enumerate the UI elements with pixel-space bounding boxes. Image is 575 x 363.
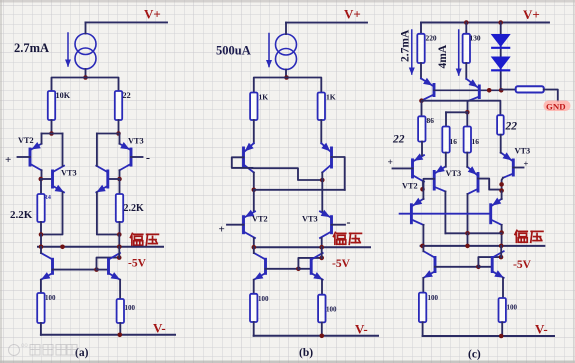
- node VT2-VT3 (a): [39, 177, 44, 182]
- resistor R4 2.2K left: [37, 179, 44, 235]
- svg-text:VT2: VT2: [402, 182, 418, 191]
- wire Q19 diode connection: [478, 257, 501, 267]
- wire VT3 collector to rail (b): [321, 238, 323, 247]
- wire Q7 collector to rail: [40, 247, 42, 253]
- wire to GND (c): [544, 90, 558, 102]
- svg-text:10K: 10K: [56, 91, 71, 100]
- wire node A horizontal: [42, 133, 63, 135]
- node VT2 collector (c): [420, 187, 425, 192]
- svg-text:(c): (c): [468, 349, 481, 361]
- svg-text:V-: V-: [355, 322, 368, 337]
- wire R10 to V- rail: [253, 322, 255, 336]
- wire Q7 base: [53, 269, 97, 271]
- resistor R15 16 first: [442, 127, 449, 153]
- node mirror bases (a): [94, 267, 99, 272]
- svg-text:VT2: VT2: [18, 136, 34, 145]
- svg-text:22: 22: [505, 121, 518, 133]
- bias rail (a): [38, 246, 163, 248]
- node 2.2K left bottom: [39, 232, 44, 237]
- wire Q12 diode connection: [298, 258, 321, 269]
- current arrow 2.7mA (c): [409, 30, 415, 75]
- svg-text:R4: R4: [44, 195, 51, 201]
- wire Q11 base: [266, 268, 299, 270]
- resistor R7 100 right (a): [117, 299, 124, 323]
- wire VT5 collector down: [119, 170, 121, 179]
- node B (a): [116, 131, 121, 136]
- node 2.2K right bottom: [117, 232, 122, 237]
- wire Q7 emitter down: [40, 280, 42, 293]
- svg-text:(b): (b): [299, 347, 313, 359]
- resistor R12 220: [417, 23, 424, 79]
- resistor R6 100 left (a): [37, 293, 44, 323]
- svg-text:+: +: [524, 159, 529, 169]
- svg-text:22: 22: [392, 134, 405, 146]
- svg-text:22: 22: [123, 91, 131, 100]
- svg-text:VT2: VT2: [252, 215, 268, 224]
- wire Q18 collector to rail: [422, 246, 424, 251]
- node Q12 collector (b): [319, 256, 324, 261]
- wire Q11 collector to rail: [253, 247, 255, 253]
- svg-text:16: 16: [450, 137, 458, 146]
- wire R6 to V- rail: [40, 323, 42, 335]
- resistor R10 100 left (b): [250, 294, 257, 322]
- wire Q9 collector down: [253, 173, 255, 190]
- node cross right (b): [320, 178, 325, 183]
- resistor R2 22: [115, 91, 122, 120]
- wire VT3r collector down: [502, 178, 503, 192]
- svg-text:2.2K: 2.2K: [10, 209, 33, 221]
- svg-text:2.2K: 2.2K: [124, 203, 145, 214]
- wire VT6 collector up: [96, 134, 98, 166]
- wire 16-line (c): [446, 111, 468, 113]
- svg-text:VT3: VT3: [61, 169, 77, 178]
- wire diode branch (c): [500, 23, 502, 91]
- V- rail (a): [41, 334, 175, 336]
- svg-text:500uA: 500uA: [216, 44, 251, 58]
- wire Q16 emitter up: [422, 189, 424, 199]
- svg-text:4mA: 4mA: [437, 44, 449, 68]
- wire R16a to VT3 emitter: [445, 153, 447, 167]
- wire R2 bottom: [118, 120, 120, 134]
- transistor Q16 fold-left (c) PNP: [411, 198, 423, 225]
- resistor R5 2.2K right: [116, 179, 123, 235]
- transistor Q17 fold-right (c) PNP: [491, 198, 502, 225]
- wire base line upper pair (c): [434, 89, 501, 91]
- transistor Q12 mirror right (b): [311, 253, 323, 280]
- transistor VT3 right (c) PNP input: [501, 152, 514, 177]
- svg-text:VT3: VT3: [302, 215, 318, 224]
- node collector tie left (c): [419, 98, 424, 103]
- wire V+ rail (c): [421, 22, 549, 24]
- wire VT5 base -input: [131, 156, 143, 158]
- svg-text:GND: GND: [546, 102, 566, 112]
- transistor VT6 (a) NPN right: [96, 166, 108, 193]
- node VT5-VT6 (a): [117, 177, 122, 182]
- node bias right (b): [319, 245, 324, 250]
- wire Q10 base route: [332, 157, 345, 190]
- wire split rail (b): [254, 78, 321, 93]
- bias rail (c): [421, 245, 545, 247]
- svg-text:VT3: VT3: [128, 137, 144, 146]
- wire cross-couple left-to-right: [252, 168, 322, 180]
- wire VT2 base +input: [18, 156, 31, 158]
- wire VT2 base (c): [393, 167, 413, 169]
- node 16-line (c): [465, 110, 470, 115]
- wire R17 to VT3r emitter: [500, 135, 502, 153]
- current arrow 4mA (c): [456, 30, 462, 76]
- transistor VT3 (a) NPN: [53, 166, 65, 193]
- svg-text:V+: V+: [344, 7, 361, 22]
- wire R11 to V- rail: [321, 322, 323, 335]
- svg-text:V+: V+: [144, 7, 161, 22]
- diode D1 (c): [491, 34, 511, 48]
- transistor VT3 (b) PNP: [320, 210, 332, 238]
- wire node to VT3 emitter (b): [321, 180, 323, 211]
- transistor Q7 mirror left (a): [41, 253, 53, 280]
- node collector line right (c): [499, 230, 504, 235]
- wire left branch to bias rail: [40, 235, 42, 247]
- svg-text:-: -: [146, 151, 150, 165]
- node bias mid (c): [465, 244, 470, 249]
- node base-diode junction 1: [487, 88, 492, 93]
- wire R18 to V- rail: [422, 322, 424, 336]
- svg-text:100: 100: [125, 304, 136, 312]
- svg-text:VT3: VT3: [446, 169, 462, 178]
- V- rail (b): [254, 335, 378, 337]
- transistor VT2 (a) PNP: [30, 142, 42, 170]
- svg-text:220: 220: [426, 34, 437, 43]
- node mid collector (c): [465, 231, 470, 236]
- transistor VT2 (b) PNP: [244, 210, 256, 238]
- current arrow 500uA: [266, 34, 272, 68]
- node V+ diode branch: [498, 20, 503, 25]
- node Q8 collector (a): [117, 255, 122, 260]
- current source I2 500uA: [276, 23, 297, 78]
- svg-text:+: +: [219, 224, 225, 236]
- node below current source (b): [284, 75, 289, 80]
- svg-text:V-: V-: [535, 322, 548, 337]
- wire node B horizontal: [97, 133, 119, 135]
- wire VT2 collector down (c): [422, 182, 424, 190]
- resistor R18 100 left (c): [419, 293, 426, 323]
- transistor VT5 (a) PNP right: [120, 142, 132, 170]
- svg-text:100: 100: [507, 304, 518, 312]
- svg-text:+: +: [5, 154, 11, 166]
- wire Q15 base route: [478, 179, 502, 190]
- wire Q9 base loop: [232, 157, 253, 168]
- transistor Q11 mirror left (b): [254, 253, 266, 280]
- wire R8 bottom: [253, 120, 255, 143]
- node V- (b): [320, 334, 325, 339]
- wire VT6 emitter down: [97, 192, 119, 234]
- wire Q18 base: [435, 266, 478, 268]
- svg-text:-5V: -5V: [332, 258, 351, 270]
- wire R9 bottom: [320, 120, 322, 143]
- svg-text:100: 100: [326, 306, 337, 314]
- wire Q8 emitter down: [119, 280, 121, 299]
- node VT3r collector (c): [499, 182, 504, 187]
- node Q19 collector (c): [499, 255, 504, 260]
- svg-text:1K: 1K: [259, 93, 269, 102]
- node bias mid (a): [60, 245, 65, 250]
- svg-text:2.7mA: 2.7mA: [14, 41, 49, 55]
- wire VT3 base (b): [332, 224, 346, 226]
- node bias right (a): [117, 245, 122, 250]
- node mirror bases (c): [476, 265, 481, 270]
- node base tie (c): [499, 188, 504, 193]
- transistor Q18 mirror left (c): [424, 251, 436, 278]
- resistor R8 1K left: [250, 93, 257, 121]
- wire drop to 16-line (c): [467, 101, 469, 112]
- wire VT2 emitter up: [41, 134, 43, 144]
- node bias left (a): [39, 245, 44, 250]
- wire R16b to Q15 emitter: [466, 153, 468, 167]
- transistor Q15 mid-right (c) PNP: [467, 166, 478, 194]
- watermark: [9, 343, 78, 356]
- resistor R11 100 right (b): [318, 295, 325, 323]
- V- rail (c): [423, 335, 554, 337]
- label bias 偏压 (b): [333, 232, 361, 244]
- resistor R19 100 right (c): [499, 298, 506, 322]
- wire Q19 base: [478, 266, 492, 268]
- node base-diode junction 2: [499, 88, 504, 93]
- svg-text:+: +: [388, 158, 393, 168]
- node bias left (b): [252, 245, 257, 250]
- wire VT3 collector up: [62, 134, 64, 166]
- wire bias resistor left (c): [501, 89, 516, 91]
- wire V+ rail (b): [286, 22, 367, 24]
- diode D2 (c): [491, 57, 511, 71]
- resistor R9 1K right: [318, 93, 325, 121]
- wire V+ rail (a): [86, 21, 168, 23]
- transistor Q13 upper-left (c) PNP: [421, 78, 434, 101]
- wire Q16 collector down: [422, 225, 424, 246]
- wire right branch to bias rail: [118, 235, 120, 247]
- svg-text:V-: V-: [153, 321, 166, 336]
- transistor Q10 top-right (b) PNP: [321, 143, 331, 173]
- wire Q11 emitter down: [253, 280, 255, 294]
- wire VT5 emitter up: [119, 134, 121, 144]
- wire Q8 base: [97, 269, 109, 271]
- resistor R1 10K: [48, 91, 55, 120]
- transistor Q14 upper-right (c) PNP: [466, 79, 479, 101]
- wire collector tie to rail (c): [445, 232, 501, 234]
- svg-text:-5V: -5V: [128, 258, 147, 270]
- wire VT3 emitter down: [41, 192, 63, 234]
- node V- (a): [118, 333, 123, 338]
- wire Q8 diode connection: [97, 258, 120, 270]
- ground GND flag: [544, 101, 571, 112]
- wire Q12 base: [298, 268, 311, 270]
- wire VT2 collector down: [41, 170, 43, 179]
- resistor R14 86: [418, 101, 425, 142]
- wire Q12 collector to rail: [321, 247, 323, 258]
- label bias 偏压 (a): [130, 233, 158, 245]
- wire VT3 base (a): [41, 178, 53, 180]
- svg-text:100: 100: [258, 295, 269, 303]
- node bias right (c): [499, 244, 504, 249]
- wire to R16a: [445, 112, 447, 126]
- wire Q15 collector down: [467, 194, 469, 233]
- wire Q17 emitter up: [501, 191, 503, 199]
- node bias left (c): [420, 244, 425, 249]
- wire Q10 collector down: [321, 173, 323, 181]
- svg-text:VT3: VT3: [515, 147, 531, 156]
- resistor R13 130: [463, 23, 470, 79]
- transistor VT2 (c) PNP input: [413, 153, 425, 181]
- label bias 偏压 (c): [515, 230, 543, 242]
- wire VT2 emitter up (c): [421, 142, 423, 156]
- wire split rail (a): [52, 78, 119, 92]
- wire VT6 base (a): [108, 178, 120, 180]
- wire Q12 emitter down: [321, 280, 323, 295]
- svg-text:-: -: [347, 215, 351, 229]
- wire R1 bottom: [51, 120, 53, 134]
- resistor R16 16 second: [464, 127, 471, 153]
- wire VT2 collector to rail (b): [253, 238, 255, 247]
- wire fold base line (c): [400, 213, 491, 215]
- wire mid collectors drop (c): [467, 233, 469, 246]
- wire collector tie line (c): [422, 101, 501, 116]
- node mirror bases (b): [296, 267, 301, 272]
- wire Q17 collector down: [501, 225, 503, 246]
- svg-text:-5V: -5V: [513, 259, 532, 271]
- wire R19 to V- rail: [501, 322, 503, 336]
- svg-text:oo: oo: [21, 343, 28, 349]
- wire VT3r base (c): [513, 167, 523, 169]
- svg-text:16: 16: [472, 137, 480, 146]
- node V- (c): [499, 334, 504, 339]
- wire cross-couple right-to-left: [254, 189, 345, 191]
- svg-text:V+: V+: [523, 7, 540, 22]
- wire node to VT2 emitter (b): [253, 190, 255, 211]
- wire VT2 base (b): [227, 224, 244, 226]
- svg-text:2.7mA: 2.7mA: [400, 29, 412, 62]
- wire Q18 emitter down: [422, 278, 424, 293]
- transistor Q9 top-left (b) PNP: [244, 143, 254, 173]
- transistor Q19 mirror right (c): [492, 251, 504, 278]
- svg-text:100: 100: [45, 294, 56, 302]
- node V+ 130 branch: [464, 20, 469, 25]
- resistor R17 22 right (c): [497, 115, 504, 135]
- svg-text:1K: 1K: [326, 93, 336, 102]
- node A (a): [49, 131, 54, 136]
- svg-text:130: 130: [470, 34, 481, 43]
- wire to R16b: [466, 112, 468, 126]
- svg-text:100: 100: [428, 294, 439, 302]
- wire Q19 collector to rail: [500, 246, 502, 257]
- transistor Q8 mirror right (a): [109, 253, 121, 280]
- wire VT3 mid base (c): [424, 179, 435, 190]
- resistor R20 horizontal (c): [516, 86, 544, 92]
- transistor VT3 mid-left (c) PNP: [434, 165, 445, 191]
- wire R7 to V- rail: [119, 323, 121, 335]
- bias rail (b): [254, 246, 370, 248]
- wire VT3 mid collector down: [444, 192, 446, 234]
- edge vignette: [0, 0, 575, 3]
- current source I1 2.7mA: [75, 22, 96, 77]
- svg-text:86: 86: [427, 116, 435, 125]
- node Q9 collector (b): [252, 188, 257, 193]
- wire Q8 collector to rail: [118, 247, 120, 258]
- node below current source (a): [83, 75, 88, 80]
- wire Q19 emitter down: [502, 278, 504, 298]
- current arrow 2.7mA (a): [65, 33, 71, 67]
